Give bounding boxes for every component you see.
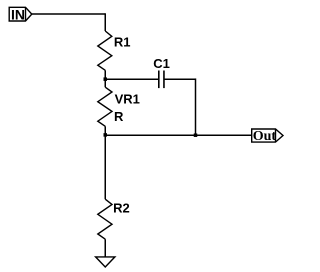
resistor R1 [98,31,112,70]
node junction C1 branch / out line [194,133,198,137]
wire IN to corner [32,13,105,15]
ground [96,257,115,267]
wire R1 bottom lead [104,70,106,79]
svg-text:R2: R2 [113,200,130,215]
svg-text:R1: R1 [114,35,131,50]
svg-text:VR1: VR1 [115,91,140,106]
wire C1 right plate to corner [164,78,196,80]
svg-text:Out: Out [253,129,277,144]
wire VR1 bottom lead [104,126,106,135]
wire VR1 top lead [104,79,106,87]
wire out line [105,134,251,136]
wire right branch down [195,78,197,135]
port flag IN [9,7,32,21]
potentiometer VR1 [98,87,112,126]
wire junction down to R2 [104,135,106,199]
svg-text:IN: IN [11,6,25,22]
wire junction to C1 left plate [105,78,159,80]
capacitor C1 [159,71,164,89]
resistor R2 [98,199,112,239]
svg-text:R: R [114,109,124,124]
wire corner down to R1 [104,13,106,31]
node junction VR1/R2/Out [104,133,108,137]
svg-text:C1: C1 [153,56,170,71]
port flag Out [252,129,283,142]
node junction R1/VR1/C1 [104,77,108,81]
wire R2 to ground [104,239,106,257]
